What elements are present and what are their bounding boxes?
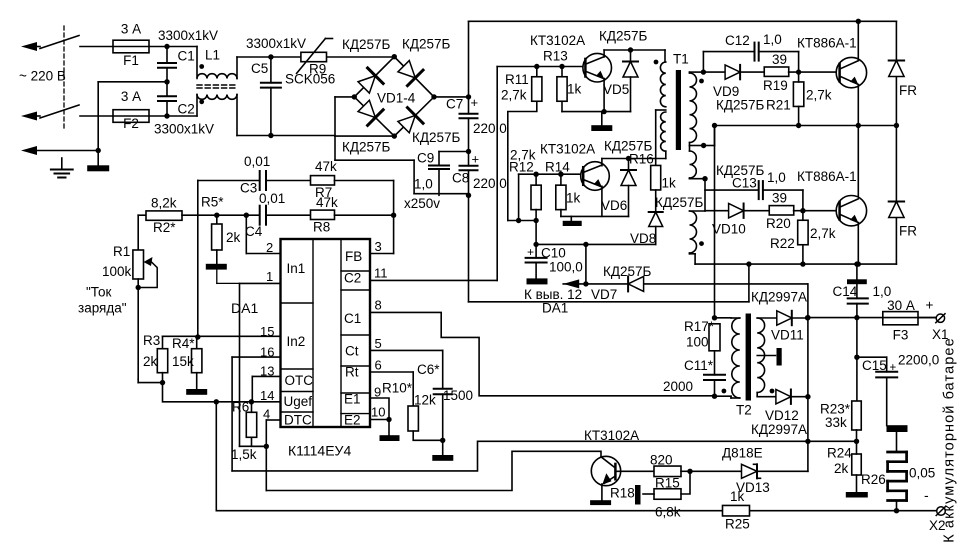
svg-text:R12: R12	[509, 160, 534, 175]
svg-text:R15: R15	[655, 476, 680, 491]
svg-text:C13: C13	[732, 176, 757, 191]
svg-text:2k: 2k	[143, 354, 158, 369]
svg-text:220,0: 220,0	[473, 176, 507, 191]
svg-text:R18: R18	[610, 486, 635, 501]
svg-text:0,01: 0,01	[259, 191, 285, 206]
svg-text:VD12: VD12	[765, 408, 799, 423]
svg-text:+: +	[527, 245, 534, 259]
svg-text:F3: F3	[893, 328, 909, 343]
svg-text:1,5k: 1,5k	[231, 447, 257, 462]
svg-text:R25: R25	[725, 517, 750, 532]
svg-text:11: 11	[374, 266, 388, 281]
svg-text:3300x1kV: 3300x1kV	[158, 28, 218, 43]
svg-text:VD10: VD10	[712, 222, 746, 237]
svg-text:DTC: DTC	[284, 413, 312, 428]
svg-text:КД257Б: КД257Б	[412, 130, 461, 145]
svg-text:3 А: 3 А	[121, 89, 141, 104]
svg-text:C1: C1	[178, 49, 195, 64]
svg-text:30 А: 30 А	[887, 298, 915, 313]
svg-text:1,0: 1,0	[414, 177, 433, 192]
svg-text:Д818Е: Д818Е	[722, 446, 763, 461]
svg-text:2k: 2k	[834, 461, 849, 476]
svg-text:Ugef: Ugef	[284, 394, 313, 409]
svg-text:FR: FR	[899, 224, 917, 239]
svg-text:R1: R1	[113, 244, 130, 259]
svg-text:100: 100	[686, 335, 709, 350]
svg-text:15: 15	[260, 324, 274, 339]
svg-text:C14: C14	[833, 284, 858, 299]
svg-text:DA1: DA1	[231, 300, 258, 316]
svg-text:+: +	[926, 298, 934, 313]
svg-text:С10: С10	[541, 246, 566, 261]
svg-text:33k: 33k	[825, 415, 847, 430]
svg-text:R4*: R4*	[172, 336, 195, 351]
svg-text:DA1: DA1	[542, 301, 568, 316]
svg-text:0,01: 0,01	[244, 154, 270, 169]
svg-text:C11*: C11*	[684, 358, 714, 373]
svg-text:R24: R24	[827, 446, 852, 461]
svg-text:In2: In2	[287, 334, 306, 349]
svg-text:10: 10	[371, 405, 385, 420]
svg-text:1,0: 1,0	[763, 32, 782, 47]
svg-text:C3: C3	[240, 181, 257, 196]
svg-text:2200,0: 2200,0	[898, 353, 939, 368]
svg-text:R14: R14	[545, 160, 570, 175]
svg-text:L1: L1	[205, 48, 220, 63]
svg-text:39: 39	[772, 191, 787, 206]
svg-text:100,0: 100,0	[549, 260, 583, 275]
svg-text:12k: 12k	[414, 393, 436, 408]
svg-text:3 А: 3 А	[121, 22, 141, 37]
svg-text:КД257Б: КД257Б	[402, 37, 451, 52]
svg-text:-: -	[924, 487, 929, 503]
svg-text:2,7k: 2,7k	[806, 88, 832, 103]
svg-text:R26: R26	[861, 472, 886, 487]
svg-text:КД2997А: КД2997А	[751, 290, 807, 305]
svg-text:VD6: VD6	[601, 198, 627, 213]
svg-text:C1: C1	[344, 311, 361, 326]
svg-text:2,7k: 2,7k	[501, 88, 527, 103]
svg-text:820: 820	[650, 453, 673, 468]
svg-text:1k: 1k	[566, 191, 581, 206]
svg-text:КД2997А: КД2997А	[751, 422, 807, 437]
svg-text:~ 220 В: ~ 220 В	[19, 69, 66, 84]
svg-text:47k: 47k	[316, 195, 338, 210]
svg-text:КТ3102А: КТ3102А	[540, 142, 595, 157]
svg-text:1,0: 1,0	[873, 284, 892, 299]
svg-text:C6*: C6*	[417, 362, 440, 377]
svg-text:1500: 1500	[443, 388, 473, 403]
svg-text:КТ886А-1: КТ886А-1	[797, 169, 857, 184]
svg-text:1: 1	[266, 269, 273, 284]
svg-text:5: 5	[375, 336, 382, 351]
svg-text:КТ3102А: КТ3102А	[584, 428, 639, 443]
svg-text:2: 2	[266, 240, 273, 255]
svg-text:К аккумуляторной батарее: К аккумуляторной батарее	[942, 337, 958, 543]
svg-text:К1114ЕУ4: К1114ЕУ4	[288, 443, 351, 459]
svg-text:3: 3	[375, 239, 382, 254]
svg-text:x250v: x250v	[404, 196, 440, 211]
svg-text:T1: T1	[673, 52, 689, 67]
svg-text:C5: C5	[251, 61, 268, 76]
svg-text:заряда": заряда"	[78, 301, 127, 316]
svg-text:R19: R19	[763, 78, 788, 93]
svg-text:6: 6	[375, 358, 382, 373]
svg-text:39: 39	[772, 52, 787, 67]
svg-text:VD1-4: VD1-4	[377, 91, 416, 106]
svg-text:C2: C2	[178, 102, 195, 117]
svg-text:Ct: Ct	[345, 344, 359, 359]
svg-text:F2: F2	[123, 116, 139, 131]
svg-text:0,05: 0,05	[909, 466, 935, 481]
svg-text:1k: 1k	[662, 176, 677, 191]
svg-text:3300x1kV: 3300x1kV	[246, 36, 306, 51]
svg-text:R8: R8	[313, 220, 330, 235]
svg-text:1k: 1k	[567, 82, 582, 97]
svg-text:100k: 100k	[102, 264, 132, 279]
svg-text:15k: 15k	[172, 354, 194, 369]
svg-text:КД257Б: КД257Б	[655, 195, 704, 210]
svg-text:VD5: VD5	[603, 82, 629, 97]
svg-text:C15: C15	[862, 358, 887, 373]
svg-text:SCK056: SCK056	[285, 72, 335, 87]
svg-text:47k: 47k	[315, 159, 337, 174]
svg-text:+: +	[471, 95, 479, 110]
svg-text:+: +	[890, 362, 897, 374]
svg-text:КД257Б: КД257Б	[599, 29, 648, 44]
svg-text:R22: R22	[770, 236, 795, 251]
svg-text:R2*: R2*	[153, 220, 176, 235]
svg-text:8,2k: 8,2k	[151, 196, 177, 211]
svg-text:F1: F1	[123, 53, 139, 68]
svg-text:3300x1kV: 3300x1kV	[154, 122, 214, 137]
svg-text:C7: C7	[446, 97, 463, 112]
svg-text:14: 14	[260, 388, 274, 403]
svg-text:R10*: R10*	[382, 381, 413, 396]
svg-text:VD13: VD13	[736, 480, 770, 495]
svg-text:2,7k: 2,7k	[810, 226, 836, 241]
svg-text:1,0: 1,0	[767, 170, 786, 185]
svg-text:In1: In1	[287, 261, 306, 276]
svg-text:R6: R6	[232, 400, 249, 415]
svg-text:КД257Б: КД257Б	[342, 140, 391, 155]
svg-text:КД257Б: КД257Б	[342, 37, 391, 52]
svg-text:КТ3102А: КТ3102А	[530, 33, 585, 48]
svg-text:R21: R21	[766, 98, 791, 113]
svg-text:R11: R11	[505, 72, 529, 87]
svg-text:2k: 2k	[226, 230, 241, 245]
svg-text:OTC: OTC	[285, 373, 314, 388]
svg-text:FB: FB	[345, 249, 362, 264]
svg-text:VD7: VD7	[591, 287, 617, 302]
svg-text:C2: C2	[344, 271, 361, 286]
svg-text:R5*: R5*	[201, 195, 224, 210]
svg-text:C4: C4	[245, 224, 263, 239]
svg-text:E2: E2	[344, 413, 361, 428]
svg-text:КТ886А-1: КТ886А-1	[797, 36, 857, 51]
svg-text:220,0: 220,0	[473, 121, 507, 136]
svg-text:8: 8	[375, 298, 382, 313]
svg-text:FR: FR	[899, 83, 917, 98]
svg-text:6,8k: 6,8k	[655, 505, 681, 520]
svg-text:C12: C12	[725, 33, 750, 48]
svg-text:R16: R16	[629, 152, 654, 167]
svg-text:КД257Б: КД257Б	[603, 264, 652, 279]
svg-text:R3: R3	[143, 333, 160, 348]
svg-text:КД257Б: КД257Б	[716, 98, 765, 113]
svg-text:Rt: Rt	[345, 365, 359, 380]
svg-text:T2: T2	[736, 403, 752, 418]
svg-text:"Ток: "Ток	[86, 285, 111, 300]
svg-text:E1: E1	[344, 392, 361, 407]
svg-text:С8: С8	[452, 171, 469, 186]
svg-text:VD11: VD11	[771, 328, 804, 343]
svg-text:VD8: VD8	[630, 231, 656, 246]
svg-text:C9: C9	[417, 151, 434, 166]
svg-text:R17*: R17*	[684, 319, 715, 334]
svg-text:2000: 2000	[663, 379, 693, 394]
svg-text:+: +	[472, 152, 480, 167]
svg-text:R13: R13	[543, 49, 568, 64]
svg-text:R20: R20	[766, 216, 791, 231]
